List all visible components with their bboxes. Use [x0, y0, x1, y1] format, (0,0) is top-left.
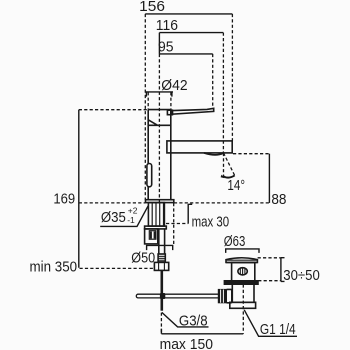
svg-text:156: 156: [139, 0, 165, 15]
svg-text:169: 169: [53, 191, 75, 207]
svg-text:max 30: max 30: [192, 214, 230, 230]
svg-text:88: 88: [271, 192, 286, 208]
svg-text:+2: +2: [128, 206, 138, 216]
svg-text:30÷50: 30÷50: [283, 268, 320, 284]
svg-text:G3/8: G3/8: [179, 313, 208, 329]
svg-text:-1: -1: [127, 215, 135, 225]
svg-text:Ø50: Ø50: [131, 250, 155, 266]
svg-text:G1 1/4: G1 1/4: [260, 322, 296, 338]
svg-text:Ø42: Ø42: [161, 78, 187, 94]
svg-text:min 350: min 350: [30, 259, 78, 275]
svg-text:95: 95: [158, 40, 174, 56]
svg-text:116: 116: [156, 18, 178, 34]
svg-text:Ø35: Ø35: [101, 210, 126, 226]
svg-text:max 150: max 150: [160, 337, 213, 350]
svg-text:Ø63: Ø63: [224, 234, 246, 250]
svg-text:14°: 14°: [227, 178, 245, 194]
